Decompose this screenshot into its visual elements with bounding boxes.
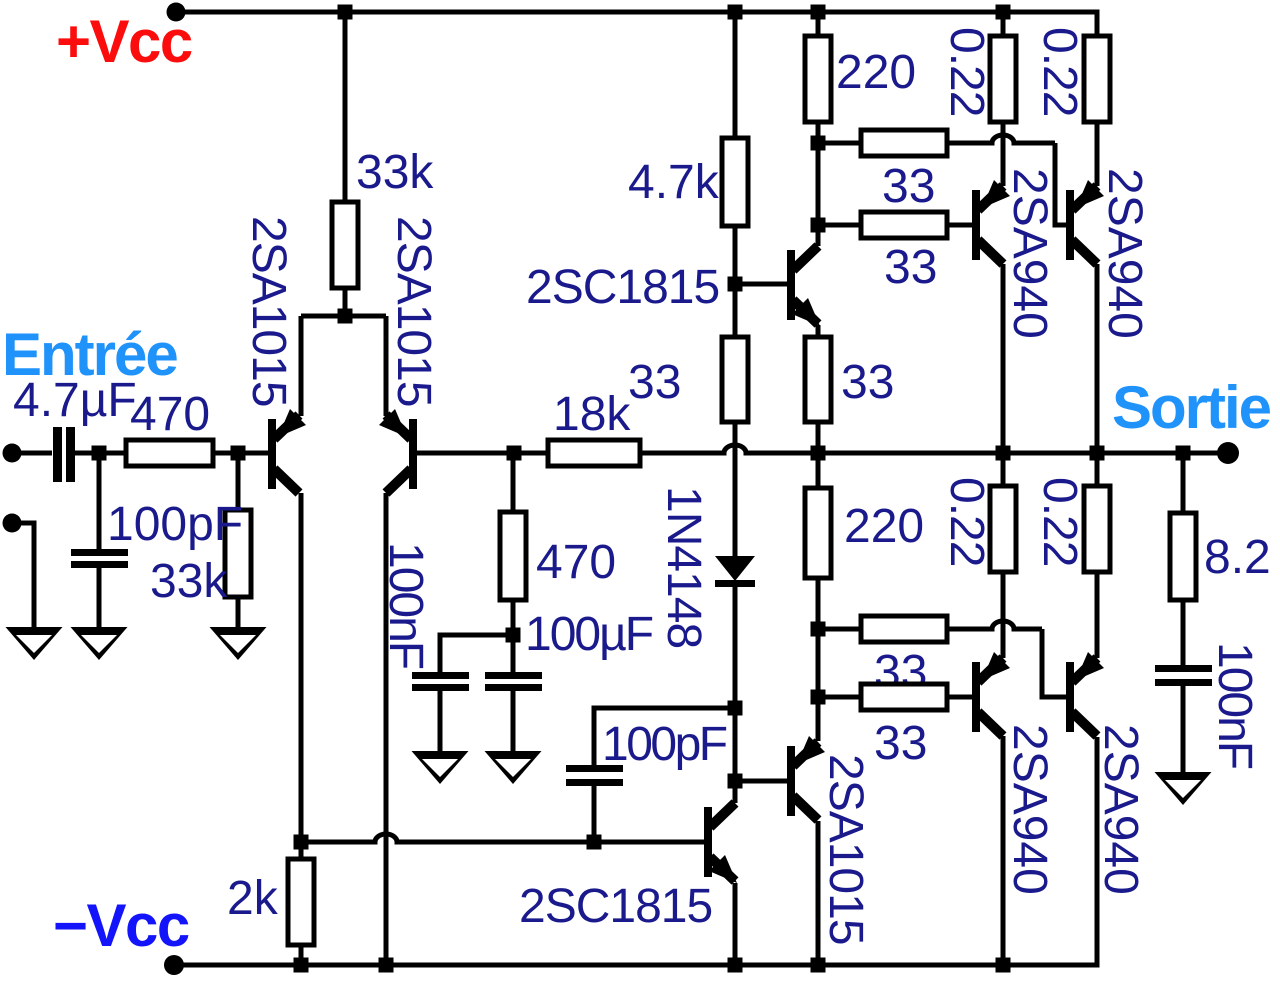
ground shield — [6, 627, 63, 660]
node +Vcc terminal — [167, 3, 186, 22]
node output terminal Sortie — [1217, 442, 1239, 464]
svg-text:2SA1015: 2SA1015 — [242, 216, 295, 407]
node -Vcc terminal — [164, 955, 184, 975]
svg-text:100pF: 100pF — [602, 718, 727, 771]
wire 0.22L to Q6 emitter — [1001, 122, 1006, 186]
wire Q2 emitter drop — [384, 316, 389, 416]
svg-text:33: 33 — [841, 356, 894, 409]
junction node L — [294, 835, 309, 850]
svg-text:18k: 18k — [553, 388, 631, 441]
junction bottom rail / Q5 collector — [811, 958, 826, 973]
wire Q3 emitter down — [816, 325, 821, 337]
capacitor 100nF zobel — [1155, 665, 1212, 672]
resistor 33 top driver 2 — [861, 212, 947, 238]
svg-text:2SA1015: 2SA1015 — [819, 754, 872, 945]
resistor 33k tail — [332, 202, 358, 288]
wire mid rail to 8.2 — [1181, 453, 1186, 513]
wire junction L to 2k — [299, 842, 304, 859]
transistor Q2 2SA1015 right — [409, 419, 417, 489]
capacitor 100nF feedback — [412, 672, 469, 679]
transistor Q3 2SC1815 top — [787, 250, 795, 320]
wire 100nF to ground — [438, 691, 443, 751]
junction top rail / 220 — [811, 5, 826, 20]
transistor Q1 2SA1015 left — [268, 419, 276, 489]
svg-text:1N4148: 1N4148 — [657, 486, 710, 648]
wire 0.22 to Q9 emitter — [1095, 572, 1100, 658]
junction bottom rail / Q4 emitter — [728, 958, 743, 973]
wire emitter node horizontal — [301, 314, 386, 319]
wire junction D to 100uF — [511, 635, 516, 672]
resistor 0.22 top left — [990, 36, 1016, 122]
wire 0.22L top rail stub — [1001, 12, 1006, 36]
wire Q5 collector down — [816, 821, 821, 965]
resistor 18k feedback — [548, 440, 640, 466]
wire Q1 collector down — [299, 493, 304, 842]
svg-text:470: 470 — [130, 388, 210, 441]
wire junction J to 33 — [818, 695, 861, 700]
resistor 470 feedback — [500, 512, 526, 600]
junction mid rail 8.2 — [1176, 446, 1191, 461]
junction node D — [506, 628, 521, 643]
capacitor 100uF feedback — [485, 672, 542, 679]
junction top rail / 33k — [338, 5, 353, 20]
wire junction I to junction J — [816, 629, 821, 697]
wire input to coupling cap — [12, 451, 52, 456]
node input ground terminal — [3, 514, 22, 533]
wire 2k to bottom rail — [299, 945, 304, 965]
resistor 0.22 top right — [1084, 36, 1110, 122]
wire Q4 emitter down — [733, 883, 738, 965]
wire 100pF to ground — [97, 568, 102, 629]
resistor 33 left VAS — [722, 337, 748, 422]
wire 100pF to junction K — [592, 786, 597, 842]
wire junction E to junction F — [733, 708, 738, 781]
svg-text:0.22: 0.22 — [940, 27, 993, 116]
junction node A — [92, 446, 107, 461]
wire 100uF to ground — [511, 691, 516, 751]
wire mid rail to 0.22 bottom left — [1001, 453, 1006, 486]
wire junction B to Q1 base — [238, 451, 268, 456]
wire 33 to right 2SA940 base with hop — [947, 135, 1055, 143]
svg-text:4.7k: 4.7k — [628, 156, 720, 209]
transistor Q4 2SC1815 bottom — [704, 807, 712, 877]
svg-text:33: 33 — [882, 160, 935, 213]
wire 0.22 to Q8 emitter — [1001, 572, 1006, 658]
svg-text:33k: 33k — [150, 555, 228, 608]
ground zobel — [1155, 772, 1212, 805]
wire Q3 collector up — [816, 225, 821, 246]
svg-text:100pF: 100pF — [107, 498, 243, 551]
junction bottom rail / 2SA940 collector — [996, 958, 1011, 973]
node input terminal Entrée — [3, 444, 22, 463]
junction node F — [728, 774, 743, 789]
junction top rail / 0.22 left — [996, 5, 1011, 20]
wire Q1 emitter drop — [299, 316, 304, 416]
svg-text:8.2: 8.2 — [1204, 531, 1271, 584]
wire 470 to junction B — [213, 451, 268, 456]
wire mid rail to 220 bottom — [816, 453, 821, 488]
wire 33 to right 2SA940 base with hop — [947, 621, 1042, 629]
wire -Vcc bottom rail with corner to right 2SA940 collector — [174, 737, 1097, 965]
resistor 33 bottom driver — [861, 616, 947, 642]
ground input 33k — [210, 627, 267, 660]
svg-text:2SC1815: 2SC1815 — [519, 880, 712, 933]
svg-text:470: 470 — [536, 536, 616, 589]
transistor Q8 2SA940 bottom left — [972, 662, 980, 732]
wire diode to junction E — [733, 586, 738, 708]
wire Q3 base junction down to 33 — [733, 284, 738, 337]
wire junction G to junction H — [816, 143, 821, 225]
svg-text:0.22: 0.22 — [1033, 477, 1086, 566]
capacitor 4.7uF input coupling — [53, 427, 62, 482]
wire junction C to 18k — [514, 451, 548, 456]
resistor 33 top driver — [861, 130, 947, 156]
wire junction H to 33 — [818, 223, 861, 228]
svg-text:0.22: 0.22 — [940, 477, 993, 566]
wire cap to junction A — [75, 451, 126, 456]
svg-text:100µF: 100µF — [525, 608, 653, 661]
wire junction F to Q5 base — [735, 779, 787, 784]
transistor Q5 2SA1015 bottom — [787, 746, 795, 816]
transistor Q7 2SA940 top right — [1066, 190, 1074, 260]
wire Q7 collector to mid rail — [1095, 264, 1100, 453]
svg-text:2SA940: 2SA940 — [1098, 168, 1151, 339]
svg-text:2SC1815: 2SC1815 — [526, 261, 719, 314]
junction node E — [728, 701, 743, 716]
svg-text:33: 33 — [884, 241, 937, 294]
wire junction G to 33 — [818, 141, 861, 146]
wire junction F to Q4 collector — [733, 781, 738, 803]
junction node C — [507, 446, 522, 461]
wire 470 to junction D — [511, 600, 516, 635]
wire junction D to 100nF — [440, 635, 513, 672]
junction node K — [587, 835, 602, 850]
capacitor 100pF input — [71, 549, 128, 556]
resistor 4.7k — [722, 138, 748, 226]
wire Q3 base — [735, 282, 787, 287]
wire mid rail to 0.22 bottom right — [1095, 453, 1100, 486]
junction node H — [811, 218, 826, 233]
ground 100uF — [485, 751, 542, 784]
svg-text:0.22: 0.22 — [1033, 27, 1086, 116]
wire top rail to 33k — [343, 12, 348, 202]
svg-text:33: 33 — [628, 356, 681, 409]
resistor 33 right VAS — [805, 337, 831, 422]
wire +Vcc top rail with corner to right 0.22 resistor — [178, 12, 1097, 36]
svg-text:33: 33 — [874, 717, 927, 770]
svg-text:2k: 2k — [227, 872, 279, 925]
svg-text:220: 220 — [836, 46, 916, 99]
wire mid rail right — [818, 451, 1218, 456]
resistor 220 top — [805, 36, 831, 122]
wire junction B down — [236, 453, 241, 510]
junction emitters node — [338, 309, 353, 324]
svg-text:220: 220 — [844, 500, 924, 553]
wire junction J to Q5 emitter — [816, 697, 821, 741]
wire Q1 collector to Q4 base with hop — [301, 834, 704, 842]
wire 33k to ground — [236, 597, 241, 629]
svg-text:33k: 33k — [356, 146, 434, 199]
wire top rail to 4.7k — [733, 12, 738, 138]
junction Q3 base node — [728, 277, 743, 292]
wire 18k to mid rail with hop over diode column — [640, 445, 818, 453]
resistor 0.22 bottom right — [1084, 486, 1110, 572]
resistor 33k input bias — [225, 510, 251, 597]
junction node B — [231, 446, 246, 461]
wire 220 to junction I — [816, 578, 821, 629]
junction node J — [811, 690, 826, 705]
svg-text:2SA940: 2SA940 — [1003, 168, 1056, 339]
ground 100nF feedback — [412, 751, 469, 784]
svg-text:2SA1015: 2SA1015 — [387, 216, 440, 407]
wire 4.7k to Q3 base junction — [733, 226, 738, 284]
wire Q2 base to junction C — [417, 451, 514, 456]
wire 33 through mid rail to diode — [733, 422, 738, 556]
diode 1N4148 — [715, 556, 755, 581]
resistor 8.2 zobel — [1170, 513, 1196, 600]
junction top rail / 4.7k — [728, 5, 743, 20]
junction mid rail 0.22L — [996, 446, 1011, 461]
junction mid rail 0.22R — [1090, 446, 1105, 461]
wire Q8 collector to bottom rail — [1001, 736, 1006, 965]
wire Q2 collector through — [384, 830, 389, 854]
wire junction C down — [511, 453, 516, 512]
capacitor 100pF compensation — [566, 765, 623, 772]
svg-text:100nF: 100nF — [1208, 642, 1261, 769]
wire 33 to left 2SA940 base — [947, 223, 972, 228]
wire junction I to 33 — [818, 627, 861, 632]
wire shield terminal to ground — [12, 523, 34, 629]
svg-text:100nF: 100nF — [379, 542, 432, 669]
svg-text:+Vcc: +Vcc — [56, 8, 192, 75]
resistor 2k — [288, 859, 314, 945]
svg-text:Sortie: Sortie — [1112, 374, 1271, 441]
junction mid rail x818 — [811, 446, 826, 461]
resistor 33 bottom driver 2 — [861, 684, 947, 710]
wire top rail to 220 — [816, 12, 821, 36]
wire Q6 collector to mid rail — [1001, 264, 1006, 453]
junction bottom rail / 2k — [294, 958, 309, 973]
resistor 0.22 bottom left — [990, 486, 1016, 572]
resistor 220 bottom — [805, 488, 831, 578]
wire 33 to left 2SA940 base — [947, 695, 972, 700]
wire 8.2 to 100nF — [1181, 600, 1186, 665]
wire 33k to emitter node — [343, 288, 348, 316]
svg-text:−Vcc: −Vcc — [53, 892, 189, 959]
transistor Q9 2SA940 bottom right — [1066, 662, 1074, 732]
transistor Q6 2SA940 top left — [972, 190, 980, 260]
wire 33 to mid rail — [816, 422, 821, 453]
wire 220 to junction G — [816, 122, 821, 143]
junction node G — [811, 136, 826, 151]
wire junction E to 100pF — [594, 708, 735, 765]
wire junction A down — [97, 453, 102, 549]
ground input 100pF — [71, 627, 128, 660]
junction bottom rail / Q2 collector — [379, 958, 394, 973]
wire Q2 collector down — [384, 493, 389, 830]
wire 0.22R to Q7 emitter — [1095, 122, 1100, 186]
resistor 470 input series — [126, 440, 213, 466]
svg-text:2SA940: 2SA940 — [1003, 724, 1056, 895]
junction node I — [811, 622, 826, 637]
svg-text:2SA940: 2SA940 — [1094, 724, 1147, 895]
svg-text:Entrée: Entrée — [2, 321, 177, 388]
wire 100nF to ground — [1181, 686, 1186, 773]
